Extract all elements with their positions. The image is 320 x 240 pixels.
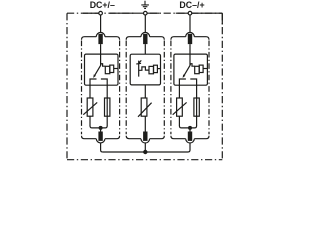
wire box to varistor, branch 1: [89, 85, 91, 98]
wire varistor down, branch 1: [89, 116, 91, 126]
wire: terminal 2 to terminal 3: [147, 12, 188, 14]
SCI switching device U2 (box): [130, 54, 160, 85]
wire box 2 to varistor: [144, 85, 146, 98]
terminal X3: [188, 11, 192, 15]
switch blade with actuator, box 3: [184, 54, 190, 75]
fixed contacts, box 3: [179, 79, 196, 86]
terminal X1: [99, 11, 103, 15]
thermal disconnector F3 top: fuse element (filled): [188, 34, 192, 44]
svg-text:DC–/+: DC–/+: [179, 0, 204, 10]
protection module box 1 (dash-dot): [82, 41, 120, 135]
varistor RV1: [87, 98, 93, 116]
device enclosure (dash-dot outer frame): [67, 13, 222, 160]
thermal disconnector bottom, branch 3: cradle arc: [186, 139, 195, 143]
wire node to bottom disconnector, branch 3: [189, 128, 191, 132]
junction node, branch 3: [188, 126, 192, 130]
bus junction node: [143, 150, 147, 154]
SCI switching device U3 (box): [174, 54, 208, 85]
thermal disconnector F1 top: fuse element (filled): [98, 34, 102, 44]
wire branch 2 to common bus: [144, 143, 146, 152]
thermal disconnector bottom, branch 1: fuse element (filled): [98, 132, 102, 141]
wire: between terminal 1 and terminal 2: [110, 12, 137, 14]
common bus wire: [103, 151, 188, 153]
trip linkage zigzag, box 1: [101, 64, 106, 66]
trip device (double rectangle), box 1: [105, 66, 110, 73]
varistor RV2: [141, 98, 147, 116]
wire terminal X1 down to disconnector: [100, 15, 102, 33]
wire: DC+/- terminal lead-in: [83, 12, 99, 14]
thermal disconnector bottom, branch 2: fuse element (filled): [143, 132, 147, 141]
thermal disconnector F3 top: bridge arc: [186, 32, 195, 36]
wire branch 1 to common bus: [101, 143, 103, 152]
thermal disconnector bottom, branch 1: cradle arc: [96, 139, 105, 143]
wire terminal X3 down to disconnector: [189, 15, 191, 33]
thermal disconnector F1 top: bridge arc: [96, 32, 105, 36]
trip device (double rectangle), box 2: [149, 66, 154, 73]
module box 2 top edge: [126, 37, 164, 40]
wire disconnector to SCI switch box 1: [100, 44, 102, 54]
wire node to bottom disconnector, branch 1: [100, 128, 102, 132]
varistor RV3: [177, 98, 183, 116]
wire box to fuse, branch 1: [106, 85, 108, 126]
svg-text:DC+/–: DC+/–: [90, 0, 115, 10]
backup fuse F3b: [194, 98, 199, 116]
thermal disconnector bottom, branch 3: fuse element (filled): [188, 132, 192, 141]
trip linkage zigzag, box 3: [190, 64, 195, 66]
wire: DC-/+ terminal to frame corner: [192, 13, 222, 24]
module box 1 top edge: [82, 37, 120, 40]
wire box to varistor, branch 3: [178, 85, 180, 98]
protection module box 2 (dash-dot): [126, 41, 164, 135]
module box 2 bottom edge with cradle: [126, 136, 164, 139]
fixed contacts, box 1: [90, 79, 107, 86]
wire disconnector to SCI switch box 2: [144, 44, 146, 54]
thermal disconnector bottom, branch 2: cradle arc: [141, 139, 150, 143]
trip linkage zigzag, box 2: [139, 67, 149, 70]
thermal disconnector F2 top: fuse element (filled): [143, 34, 147, 44]
module box 3 top edge: [171, 37, 209, 40]
joining wire below parallel elements, branch 1: [90, 126, 107, 128]
junction node, branch 1: [99, 126, 103, 130]
earth symbol at middle terminal: [141, 1, 149, 9]
backup fuse F1b: [105, 98, 110, 116]
switch blade (closed) with release, box 2: [136, 60, 141, 76]
switch blade with actuator, box 1: [95, 54, 101, 75]
wire disconnector to SCI switch box 3: [189, 44, 191, 54]
protection module box 3 (dash-dot): [171, 41, 209, 135]
trip device (double rectangle), box 3: [195, 66, 200, 73]
wire box to fuse, branch 3: [196, 85, 198, 126]
wire terminal X2 down to disconnector: [144, 15, 146, 33]
module box 1 bottom edge with cradle: [82, 136, 120, 139]
wire varistor 2 down: [144, 116, 146, 132]
wire varistor down, branch 3: [178, 116, 180, 126]
joining wire below parallel elements, branch 3: [179, 126, 196, 128]
wire branch 3 to common bus: [188, 143, 190, 152]
terminal X2: [144, 11, 148, 15]
thermal disconnector F2 top: bridge arc: [141, 32, 150, 36]
SCI switching device U1 (box): [85, 54, 119, 85]
module box 3 bottom edge with cradle: [171, 136, 209, 139]
